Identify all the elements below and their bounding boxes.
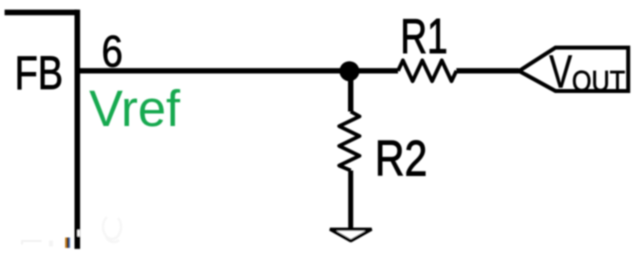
wire: FB pin to R1 xyxy=(80,68,398,73)
wire: R1 to VOUT tag xyxy=(456,68,519,73)
wire: IC top edge xyxy=(5,10,78,16)
wire: R2 to ground xyxy=(348,171,353,230)
resistor R1 xyxy=(398,60,456,81)
ground xyxy=(330,229,372,241)
wire: junction down to R2 xyxy=(348,71,353,111)
svg-text:FB: FB xyxy=(15,47,64,100)
VOUT output tag outline xyxy=(519,48,628,91)
IC body border (partial, top-left) xyxy=(5,10,78,249)
wire: IC right edge xyxy=(75,10,81,249)
bottom-edge artifact: faint erased text ghosts xyxy=(22,217,121,247)
svg-text:R2: R2 xyxy=(375,131,427,187)
resistor R2 xyxy=(339,112,359,171)
svg-text:OUT: OUT xyxy=(572,64,625,97)
node junction dot xyxy=(339,61,359,81)
svg-text:R1: R1 xyxy=(400,10,447,64)
bottom-edge artifact: notch in IC edge xyxy=(77,230,79,237)
svg-text:V: V xyxy=(549,45,572,97)
svg-text:Vref: Vref xyxy=(89,80,181,137)
bottom-edge artifact: cut-off text remnant xyxy=(65,238,70,248)
